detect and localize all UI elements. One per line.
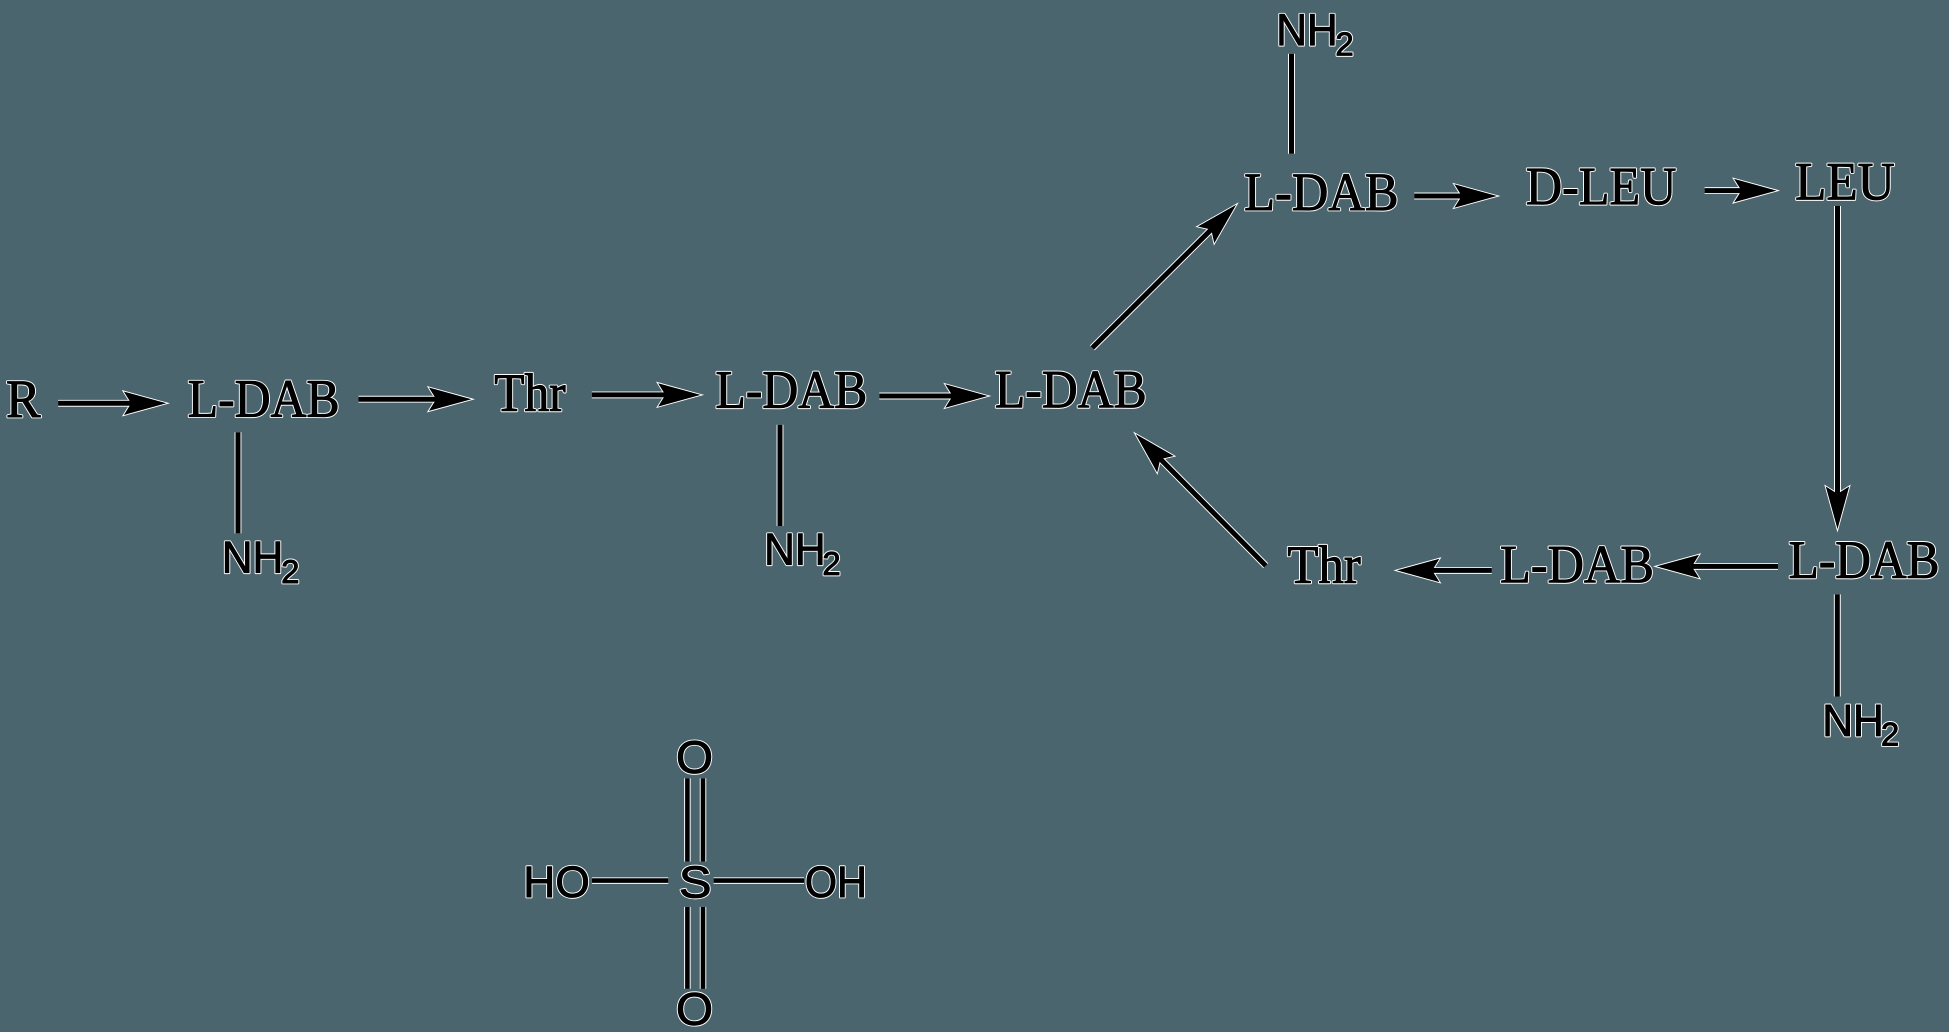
arrow L-DAB-3 up to L-DAB top ring bond (head)	[1198, 197, 1245, 244]
label: node L-DAB bottom right	[1790, 542, 1937, 578]
label: amine group NH2 under L-DAB-2: subscript 2	[824, 552, 839, 575]
label: amine group NH2 under L-DAB-1: N-H letters	[225, 542, 279, 573]
label: node L-DAB top row	[1246, 174, 1397, 210]
arrow Thr-1 to L-DAB-2 (head)	[658, 383, 701, 406]
wire: arrow Thr-2 up to L-DAB-3 ring closure (shaft)	[1156, 455, 1266, 566]
wire: sulfate: S=O double bond bottom right line	[701, 907, 706, 989]
wire: arrow L-DAB-2 to L-DAB-3 (shaft)	[879, 394, 959, 399]
wire: arrow L-DAB bottom right to L-DAB bottom middle (shaft)	[1686, 564, 1778, 569]
label: sulfate: hydroxyl HO left	[527, 866, 588, 897]
wire: sulfate: single bond S to OH	[714, 878, 804, 883]
label: amine group NH2 bottom right: subscript 2	[1883, 722, 1898, 745]
wire: sulfate: S=O double bond top left line	[685, 778, 690, 861]
arrow L-DAB-1 to Thr-1 (head)	[429, 388, 472, 411]
wire: arrow L-DAB-1 to Thr-1 (shaft)	[359, 397, 443, 402]
wire: sulfate: single bond HO to S	[592, 878, 668, 883]
wire: arrow R to L-DAB-1 (shaft)	[58, 401, 137, 406]
arrow D-LEU to LEU (head)	[1734, 179, 1777, 202]
wire: arrow LEU down to L-DAB bottom right (shaft)	[1835, 206, 1840, 500]
wire: arrow L-DAB-3 up to L-DAB top ring bond (shaft)	[1092, 225, 1215, 348]
label: amine group NH2 under L-DAB-1: subscript 2	[283, 560, 298, 583]
label: node L-DAB-1	[189, 381, 337, 417]
arrow LEU down to L-DAB bottom right (head)	[1826, 487, 1849, 530]
label: node Thr-1	[495, 373, 565, 410]
wire: arrow Thr-1 to L-DAB-2 (shaft)	[592, 392, 672, 397]
label: sulfate: oxygen O top	[678, 741, 711, 774]
label: node D-LEU	[1527, 169, 1675, 205]
label: amine group NH2 top: subscript 2	[1337, 32, 1352, 55]
arrow L-DAB-2 to L-DAB-3 (head)	[945, 384, 988, 407]
label: node L-DAB-2	[717, 372, 865, 408]
label: amine group NH2 top: N-H letters	[1280, 14, 1335, 45]
arrow L-DAB bottom middle to Thr-2 (head)	[1397, 559, 1440, 582]
label: sulfate: sulfur S center	[681, 866, 709, 898]
wire: arrow L-DAB top to D-LEU (shaft)	[1414, 194, 1468, 199]
wire: bond L-DAB bottom right down to NH2	[1835, 594, 1840, 696]
arrow R to L-DAB-1 (head)	[124, 392, 167, 415]
wire: arrow L-DAB bottom middle to Thr-2 (shaft)	[1426, 568, 1492, 573]
label: node Thr-2 bottom	[1288, 545, 1360, 582]
wire: sulfate: S=O double bond bottom left line	[685, 907, 690, 989]
label: sulfate: oxygen O bottom	[678, 993, 711, 1026]
label: sulfate: hydroxyl OH right	[807, 866, 864, 897]
arrow L-DAB bottom right to L-DAB bottom middle (head)	[1657, 555, 1700, 578]
wire: bond L-DAB-2 down to NH2	[778, 425, 783, 526]
wire: sulfate: S=O double bond top right line	[701, 778, 706, 861]
label: node L-DAB bottom middle	[1502, 547, 1652, 583]
wire: bond from top NH2 down to L-DAB top	[1289, 54, 1294, 154]
arrow L-DAB top to D-LEU (head)	[1454, 184, 1497, 207]
label: amine group NH2 bottom right: N-H letters	[1826, 705, 1881, 736]
wire: bond L-DAB-1 down to NH2	[236, 432, 241, 533]
label: node R fatty-acid residue	[8, 382, 41, 417]
label: amine group NH2 under L-DAB-2: N-H letters	[768, 534, 823, 565]
label: node L-DAB-3 ring branch point	[996, 372, 1144, 408]
wire: arrow D-LEU to LEU (shaft)	[1705, 188, 1748, 193]
label: node LEU	[1797, 164, 1894, 200]
arrow Thr-2 up to L-DAB-3 ring closure (head)	[1127, 426, 1174, 473]
